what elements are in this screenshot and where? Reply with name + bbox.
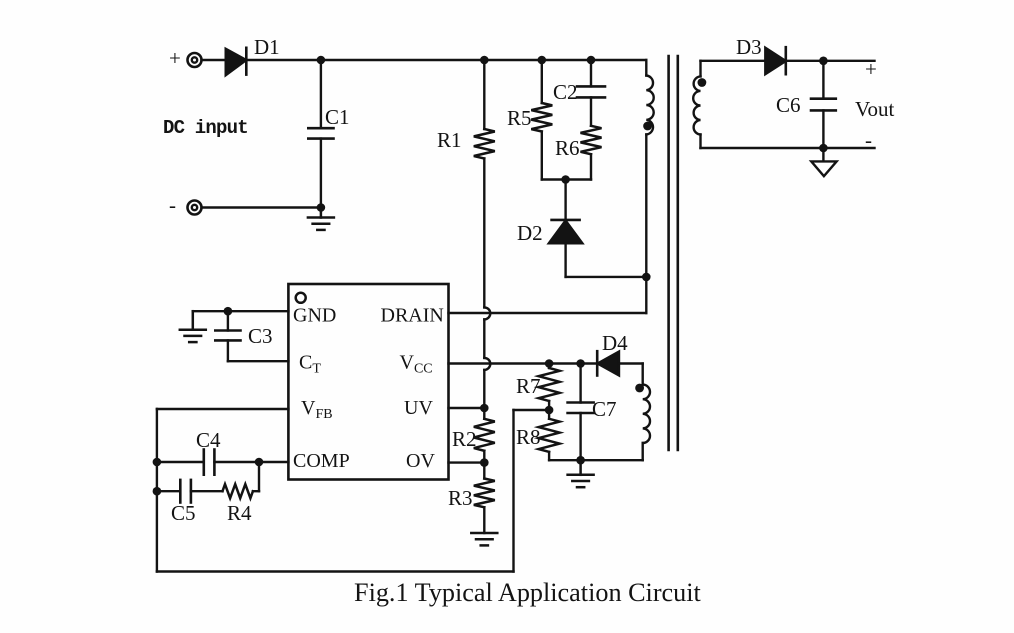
svg-text:COMP: COMP	[293, 450, 350, 472]
wire OV pin	[449, 461, 485, 463]
resistor R4	[223, 462, 260, 498]
svg-text:VCC: VCC	[400, 352, 433, 377]
node D3 / C6	[819, 57, 828, 66]
ground at R3	[471, 533, 497, 545]
node C6 / output return	[819, 144, 828, 153]
svg-text:Fig.1 Typical Application Circ: Fig.1 Typical Application Circuit	[354, 578, 702, 607]
transformer secondary winding	[693, 61, 700, 148]
label Vout	[855, 97, 894, 121]
primary polarity dot	[643, 122, 652, 131]
resistor R3	[474, 463, 495, 533]
pin label OV	[406, 450, 435, 472]
wire COMP pin line	[157, 461, 289, 463]
resistor R7	[539, 364, 560, 411]
wire aux bottom rail	[549, 459, 643, 461]
svg-text:VFB: VFB	[301, 397, 333, 422]
capacitor C1	[308, 60, 333, 208]
label R6	[555, 136, 580, 160]
label R5	[507, 106, 532, 130]
node GND / C3	[224, 307, 233, 316]
node R5/R6/D2	[561, 175, 570, 184]
secondary polarity dot	[698, 78, 707, 87]
wire top rail D1 to transformer	[246, 59, 646, 61]
node top rail / C1	[317, 56, 326, 65]
svg-text:C2: C2	[553, 80, 578, 104]
label - (output)	[865, 128, 872, 152]
pin label COMP	[293, 450, 350, 472]
svg-text:+: +	[169, 46, 181, 70]
label R8	[516, 425, 541, 449]
label R7	[516, 374, 541, 398]
svg-text:OV: OV	[406, 450, 435, 472]
node top rail / R1	[480, 56, 489, 65]
transformer auxiliary winding	[643, 364, 650, 461]
label R1	[437, 128, 462, 152]
svg-text:R7: R7	[516, 374, 541, 398]
svg-text:D2: D2	[517, 221, 543, 245]
wire D2 to primary	[566, 276, 647, 278]
node C5 branch	[153, 487, 162, 496]
pin label VCC	[400, 352, 433, 377]
label D4	[602, 331, 628, 355]
svg-text:D4: D4	[602, 331, 628, 355]
wire feedback riser to R7/R8 node	[514, 410, 550, 572]
transformer core	[669, 56, 678, 450]
node top rail / C2	[587, 56, 596, 65]
label D2	[517, 221, 543, 245]
svg-text:C5: C5	[171, 501, 196, 525]
pin-1 indicator circle	[296, 293, 306, 303]
svg-text:GND: GND	[293, 305, 336, 327]
wire feedback bottom rail	[157, 570, 514, 572]
label + (input)	[169, 46, 181, 70]
node D2 / primary	[642, 273, 651, 282]
label R3	[448, 486, 473, 510]
svg-text:D1: D1	[254, 35, 280, 59]
label C3	[248, 324, 273, 348]
pin label UV	[404, 397, 433, 419]
wire UV pin	[449, 407, 485, 409]
label C4	[196, 428, 221, 452]
label R4	[227, 501, 252, 525]
node R7 / R8 / feedback	[545, 406, 554, 415]
output ground (open triangle)	[811, 148, 836, 176]
wire left feedback column	[156, 409, 158, 572]
wire VCC pin to D4	[449, 362, 598, 364]
pin label CT	[299, 352, 321, 377]
diode D3	[765, 47, 786, 74]
ground at GND pin	[180, 311, 206, 342]
capacitor C6	[811, 61, 836, 148]
resistor R8	[539, 410, 560, 460]
svg-text:R4: R4	[227, 501, 252, 525]
svg-text:UV: UV	[404, 397, 433, 419]
svg-text:R2: R2	[452, 427, 477, 451]
svg-text:R6: R6	[555, 136, 580, 160]
node UV / R1 / R2	[480, 404, 489, 413]
label C6	[776, 93, 801, 117]
svg-text:C1: C1	[325, 105, 350, 129]
transformer primary winding	[646, 60, 653, 313]
wire secondary top to D3	[701, 60, 766, 62]
pin label DRAIN	[381, 305, 444, 327]
svg-text:Vout: Vout	[855, 97, 894, 121]
resistor R1	[474, 60, 495, 159]
svg-text:DC input: DC input	[163, 117, 248, 139]
svg-text:+: +	[865, 57, 877, 81]
caption Fig.1	[354, 578, 702, 607]
wire R5-R6 bottoms	[542, 178, 591, 180]
svg-text:DRAIN: DRAIN	[381, 305, 444, 327]
node VCC / C7	[576, 359, 585, 368]
terminal - input	[188, 201, 202, 215]
label C7	[592, 397, 617, 421]
wire - terminal to C1 ground	[202, 206, 321, 208]
capacitor C2	[577, 60, 605, 97]
wire C3 to CT pin	[228, 360, 289, 362]
svg-text:R1: R1	[437, 128, 462, 152]
svg-text:R8: R8	[516, 425, 541, 449]
label DC input	[163, 117, 248, 139]
svg-text:-: -	[169, 193, 176, 217]
capacitor C3	[215, 311, 240, 361]
node aux bottom / C7 / ground	[576, 456, 585, 465]
op-amp U1 (controller IC)	[288, 284, 448, 480]
svg-text:-: -	[865, 128, 872, 152]
label - (input)	[169, 193, 176, 217]
auxiliary polarity dot	[635, 384, 644, 393]
label R2	[452, 427, 477, 451]
resistor R6	[581, 97, 602, 179]
wire R1 to UV node with hops	[484, 159, 490, 409]
label C1	[325, 105, 350, 129]
pin label GND	[293, 305, 336, 327]
node COMP / C4 left	[153, 458, 162, 467]
terminal + input	[188, 53, 202, 67]
ground at C7	[568, 460, 594, 487]
capacitor C5	[157, 480, 223, 503]
node C1 / input return	[317, 203, 326, 212]
svg-text:C7: C7	[592, 397, 617, 421]
label D3	[736, 35, 762, 59]
label + (output)	[865, 57, 877, 81]
wire secondary bottom rail	[701, 147, 875, 149]
label C2	[553, 80, 578, 104]
svg-text:R5: R5	[507, 106, 532, 130]
label C5	[171, 501, 196, 525]
wire + terminal to D1	[202, 59, 227, 61]
svg-text:C4: C4	[196, 428, 221, 452]
wire GND pin	[193, 310, 289, 312]
wire VFB pin to left column	[157, 408, 289, 410]
svg-text:C6: C6	[776, 93, 801, 117]
capacitor C4	[204, 450, 215, 475]
node COMP / R4 riser	[255, 458, 264, 467]
resistor R5	[531, 60, 552, 180]
wire D3 to + output	[786, 60, 875, 62]
node VCC / R7	[545, 359, 554, 368]
node OV / R2 / R3	[480, 458, 489, 467]
resistor R2	[474, 408, 495, 463]
capacitor C7	[568, 364, 594, 461]
label D1	[254, 35, 280, 59]
diode D1	[226, 48, 247, 75]
svg-text:R3: R3	[448, 486, 473, 510]
ground at C1	[308, 208, 334, 230]
svg-text:D3: D3	[736, 35, 762, 59]
wire DRAIN pin to primary	[449, 312, 647, 314]
diode D4	[597, 351, 643, 375]
svg-text:C3: C3	[248, 324, 273, 348]
diode D2	[549, 180, 583, 277]
svg-text:CT: CT	[299, 352, 321, 377]
pin label VFB	[301, 397, 333, 422]
node top rail / R5	[538, 56, 547, 65]
